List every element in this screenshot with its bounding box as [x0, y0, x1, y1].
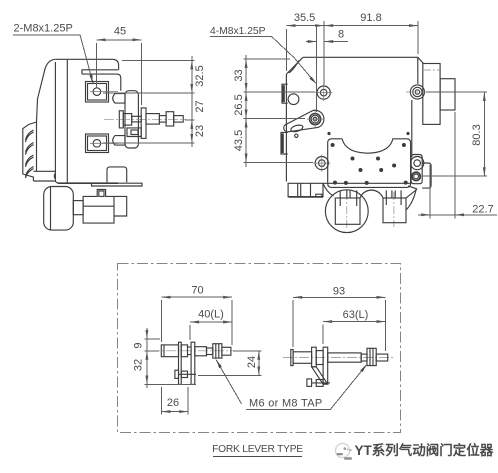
fin bracket	[23, 122, 37, 181]
fork plate 2	[323, 347, 328, 384]
fork link lower	[127, 128, 141, 137]
hump between fittings	[360, 190, 383, 198]
chain extension lines	[244, 58, 290, 60]
manifold block	[83, 190, 114, 224]
hub nut	[316, 351, 323, 365]
centerline	[150, 350, 240, 352]
left fitting body	[335, 198, 360, 224]
shaft section	[146, 114, 159, 125]
dim 26	[162, 411, 189, 413]
dim 93	[293, 296, 385, 298]
svg-text:23: 23	[194, 125, 206, 137]
left tab B	[281, 132, 288, 154]
svg-text:40(L): 40(L)	[198, 309, 224, 321]
hole lower-left M8	[313, 155, 330, 172]
rear plate	[125, 91, 138, 148]
dim 22.7	[418, 214, 430, 216]
fork plate 1	[179, 342, 182, 384]
svg-text:9: 9	[133, 342, 145, 348]
fork plate 2	[191, 342, 195, 384]
face plate	[55, 62, 118, 183]
svg-text:M6 or M8 TAP: M6 or M8 TAP	[249, 398, 323, 410]
left tab A	[282, 84, 288, 103]
lower right step	[114, 196, 127, 216]
under bracket	[92, 183, 143, 186]
dim 9/32 chain	[146, 328, 148, 388]
fins	[26, 130, 34, 142]
cam lever	[284, 110, 324, 137]
right flange	[107, 167, 127, 182]
svg-text:24: 24	[246, 356, 258, 368]
leader M6 or M8 TAP right	[246, 364, 367, 409]
dim 24	[258, 351, 260, 376]
shaft thread end	[174, 116, 184, 123]
svg-text:22.7: 22.7	[472, 204, 493, 216]
mounting plate	[328, 139, 411, 188]
thread end	[376, 354, 388, 361]
svg-text:93: 93	[333, 286, 345, 298]
left view bottom parts	[44, 167, 127, 230]
svg-text:26.5: 26.5	[233, 94, 245, 115]
left fitting stubs	[340, 190, 357, 206]
hole boss capsule	[411, 155, 422, 184]
left view: positioner side view	[23, 59, 186, 186]
bottom contour fillet left	[323, 183, 334, 196]
svg-text:43.5: 43.5	[233, 130, 245, 151]
fork lever right assembly	[283, 347, 395, 386]
svg-text:33: 33	[233, 69, 245, 81]
fork lever detail phantom border	[118, 264, 401, 433]
svg-text:32: 32	[133, 359, 145, 371]
left view dimensions	[13, 35, 195, 147]
circle upper-left small	[288, 94, 299, 105]
terminal side block	[440, 79, 455, 110]
watermark logo	[336, 444, 353, 460]
svg-text:35.5: 35.5	[294, 12, 315, 24]
dim 63(L)	[323, 321, 385, 323]
gauge stem	[73, 201, 83, 215]
terminal box	[423, 64, 440, 125]
body right edge	[412, 57, 418, 157]
left fitting circle	[325, 190, 368, 233]
chain extension lines	[122, 59, 195, 61]
shaft	[328, 353, 362, 362]
right view: positioner rear view	[281, 57, 461, 232]
fork plate left view	[141, 108, 146, 138]
boss lower 2-M8	[86, 134, 109, 153]
corner squiggle	[289, 61, 299, 73]
body outline	[286, 57, 422, 181]
dim 35.5 / 91.8 line	[286, 25, 324, 27]
leader M6 or M8 TAP left	[216, 360, 242, 405]
svg-text:45: 45	[114, 26, 126, 38]
top step lines	[82, 70, 121, 91]
svg-text:4-M8x1.25P: 4-M8x1.25P	[210, 26, 266, 37]
right fitting body	[383, 198, 406, 223]
thread end	[222, 347, 231, 355]
lever rod	[161, 345, 178, 357]
hole upper-right M8	[410, 85, 424, 99]
nut	[367, 348, 376, 365]
knurl circle	[412, 172, 420, 180]
svg-text:8: 8	[338, 29, 344, 41]
connector shaft	[132, 116, 142, 122]
right ear	[422, 163, 431, 188]
bottom pin	[175, 370, 179, 378]
end flange	[291, 350, 293, 366]
bottom pin	[307, 379, 312, 387]
clevis lower	[113, 136, 125, 146]
svg-text:FORK LEVER TYPE: FORK LEVER TYPE	[212, 444, 303, 455]
cover dome profile	[33, 59, 55, 181]
cover seal bulge	[53, 173, 56, 178]
plate corner screws	[331, 143, 408, 185]
shaft	[195, 347, 207, 356]
chain 32.5/27/23 dim line	[191, 56, 193, 147]
shaft nut	[166, 112, 174, 126]
dim 8	[306, 41, 317, 43]
bottom left block	[288, 183, 323, 196]
fork plate 1	[312, 347, 317, 367]
body small screws	[327, 132, 330, 135]
plate hole dots	[344, 157, 396, 185]
right fitting stubs	[386, 190, 401, 205]
shaft flange disc1	[119, 111, 123, 128]
right view dimensions	[210, 21, 497, 219]
svg-text:70: 70	[191, 285, 203, 297]
hole upper-left M8	[315, 84, 332, 101]
centerline	[283, 357, 395, 359]
fork lever dimensions	[144, 297, 385, 414]
face plate inner vertical	[66, 59, 68, 183]
rod	[293, 352, 312, 364]
clevis upper	[113, 94, 125, 104]
svg-text:80.3: 80.3	[471, 124, 483, 145]
dim 80.3	[483, 92, 485, 176]
svg-text:63(L): 63(L)	[343, 309, 369, 321]
svg-text:27: 27	[194, 100, 206, 112]
dim 45	[97, 39, 142, 41]
hole lower-right M8	[411, 157, 424, 170]
bottom edge right segment	[408, 186, 417, 189]
dim 70	[162, 296, 233, 298]
svg-text:32.5: 32.5	[194, 65, 206, 86]
hex nut	[181, 345, 187, 357]
svg-text:26: 26	[167, 397, 179, 409]
svg-text:2-M8x1.25P: 2-M8x1.25P	[14, 23, 73, 35]
nut	[213, 344, 222, 358]
gusset right of fitting	[406, 189, 417, 210]
label 4-M8x1.25P leader	[210, 36, 313, 80]
gauge	[44, 187, 74, 231]
svg-text:YT系列气动阀门定位器: YT系列气动阀门定位器	[355, 442, 494, 458]
svg-text:91.8: 91.8	[360, 12, 381, 24]
fork bracket	[312, 367, 328, 384]
label 2-M8x1.25P leader	[13, 35, 93, 84]
link bars	[188, 346, 192, 348]
fork lever left assembly	[150, 342, 240, 384]
shaft hub	[123, 114, 131, 126]
boss upper 2-M8	[86, 82, 109, 103]
body bottom edge	[288, 182, 412, 184]
shaft centerline	[104, 118, 186, 120]
chain 33/26.5/43.5 dim line	[245, 55, 247, 167]
dim 40(L)	[190, 321, 232, 323]
